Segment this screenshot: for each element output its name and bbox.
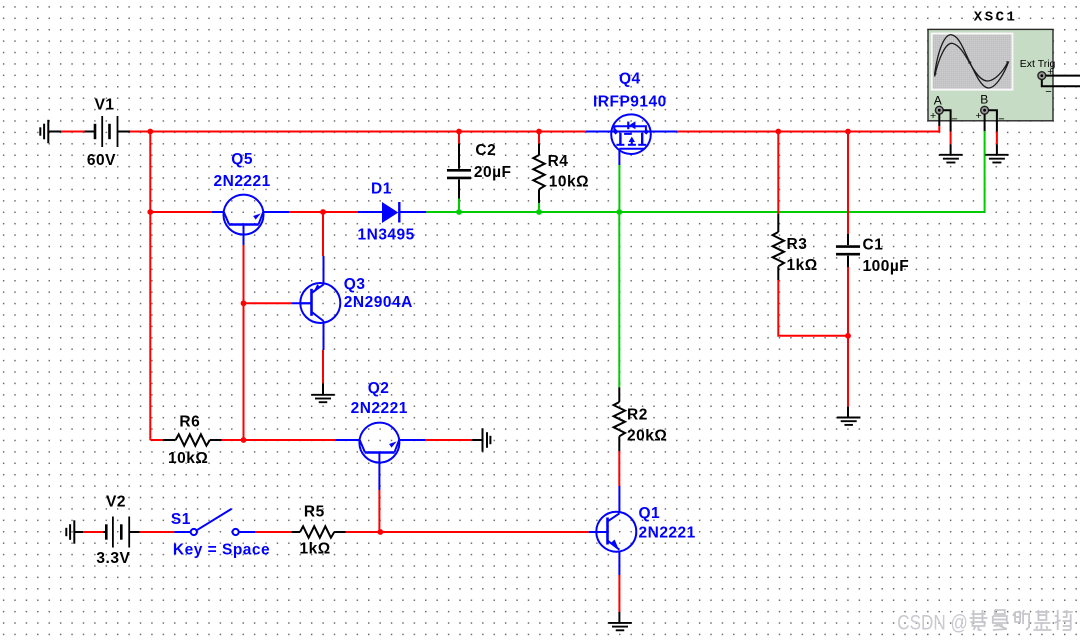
wire (R3 lead) bbox=[777, 214, 779, 232]
transistor Q1 bbox=[596, 512, 637, 552]
wire (S1 lead) bbox=[174, 531, 190, 533]
wire (Q3 emitter lead) bbox=[323, 256, 325, 285]
wire (B+ pin) bbox=[984, 114, 986, 131]
wire bbox=[458, 199, 460, 213]
wire (V1 lead) bbox=[118, 131, 131, 133]
svg-text:C2: C2 bbox=[475, 142, 496, 159]
svg-text:20µF: 20µF bbox=[474, 164, 512, 181]
svg-text:B: B bbox=[980, 93, 988, 107]
wire (ground stub) bbox=[322, 383, 324, 394]
junction bbox=[320, 209, 326, 215]
wire (ground stub) bbox=[472, 439, 483, 441]
svg-text:R4: R4 bbox=[548, 153, 569, 170]
wire bbox=[61, 131, 85, 133]
wire (Q1 base lead) bbox=[589, 531, 608, 533]
wire (Q3 base lead) bbox=[291, 302, 311, 304]
wire (B+ to output net) bbox=[984, 131, 986, 212]
wire (Q3 collector lead) bbox=[323, 321, 325, 350]
resistor R2 bbox=[614, 402, 625, 436]
wire (to R6) bbox=[150, 439, 163, 441]
wire (R5 to Q1 base) bbox=[346, 531, 589, 533]
switch S1 bbox=[191, 509, 239, 535]
svg-text:+: + bbox=[930, 110, 936, 122]
ground (Q3 collector) bbox=[311, 395, 335, 402]
svg-text:V1: V1 bbox=[95, 97, 115, 114]
diode D1 bbox=[382, 202, 398, 223]
wire (Q4 drain to output) bbox=[618, 165, 620, 212]
svg-text:10kΩ: 10kΩ bbox=[168, 450, 208, 467]
junction bbox=[241, 437, 247, 443]
junction bbox=[536, 209, 542, 215]
svg-text:Key = Space: Key = Space bbox=[173, 541, 270, 558]
wire (R2 lead) bbox=[618, 436, 620, 451]
svg-text:V2: V2 bbox=[106, 493, 126, 510]
svg-text:S1: S1 bbox=[171, 511, 191, 528]
wire (C1 lead) bbox=[847, 234, 849, 245]
svg-text:Q1: Q1 bbox=[639, 505, 661, 522]
wire (V1 lead) bbox=[85, 131, 96, 133]
svg-text:2N2221: 2N2221 bbox=[639, 525, 696, 542]
wire (to Q3 base) bbox=[244, 302, 292, 304]
wire (Q2 base lead) bbox=[378, 463, 380, 490]
svg-text:2N2221: 2N2221 bbox=[214, 173, 271, 190]
scope trace arrow marks bbox=[968, 61, 972, 64]
wire (R6 lead) bbox=[210, 439, 222, 441]
wire (left branch vertical) bbox=[149, 132, 151, 441]
svg-text:Q4: Q4 bbox=[619, 71, 641, 88]
wire (Q2 base to S1 net) bbox=[378, 490, 380, 532]
transistor Q4 (P-MOSFET IRFP9140) bbox=[611, 114, 651, 165]
wire (D1 anode lead) bbox=[358, 211, 382, 213]
wire (Q2 to ground) bbox=[425, 439, 472, 441]
wire (V2 ground lead) bbox=[74, 531, 83, 533]
wire (V2 lead) bbox=[103, 531, 106, 533]
junction bbox=[456, 209, 462, 215]
wire (R4 lead) bbox=[538, 144, 540, 155]
junction bbox=[241, 300, 247, 306]
wire (A+ pin) bbox=[938, 114, 940, 126]
wire (C2 lead) bbox=[458, 179, 460, 198]
wire (Q2 emitter lead) bbox=[399, 439, 425, 441]
svg-text:Q5: Q5 bbox=[231, 151, 253, 168]
svg-text:R5: R5 bbox=[304, 503, 325, 520]
wire (60V rail right) bbox=[677, 131, 939, 133]
junction bbox=[536, 129, 542, 135]
junction bbox=[845, 129, 851, 135]
svg-text:D1: D1 bbox=[371, 181, 392, 198]
wire (Q5 emitter lead) bbox=[263, 211, 289, 213]
svg-text:R6: R6 bbox=[179, 413, 200, 430]
resistor R5 bbox=[300, 526, 334, 537]
wire (Q5 base net) bbox=[243, 245, 245, 440]
svg-text:−: − bbox=[1045, 86, 1051, 98]
wire (A− stub) bbox=[950, 144, 952, 155]
ground (scope B−) bbox=[985, 155, 1008, 163]
svg-text:1N3495: 1N3495 bbox=[358, 226, 415, 243]
wire (Q5 base lead) bbox=[243, 235, 245, 245]
wire (A+ to rail) bbox=[938, 126, 940, 133]
resistor R3 bbox=[773, 232, 784, 266]
wire (A- pin) bbox=[943, 110, 950, 131]
battery V1 bbox=[95, 116, 118, 147]
wire (output net horizontal) bbox=[426, 211, 984, 213]
wire (ground stub) bbox=[618, 612, 620, 623]
svg-text:A: A bbox=[934, 94, 942, 108]
wire (ext trig −) bbox=[1042, 80, 1080, 87]
watermark glyphs bbox=[970, 610, 988, 630]
wire (R6 lead) bbox=[163, 439, 176, 441]
svg-text:IRFP9140: IRFP9140 bbox=[593, 94, 667, 111]
transistor Q5 bbox=[224, 195, 264, 235]
wire (ext trig +) bbox=[1046, 75, 1080, 77]
svg-text:R3: R3 bbox=[787, 236, 808, 253]
capacitor C2 bbox=[447, 170, 471, 178]
svg-text:CSDN @: CSDN @ bbox=[897, 611, 968, 635]
resistor R6 bbox=[176, 434, 210, 445]
svg-text:20kΩ: 20kΩ bbox=[627, 428, 667, 445]
svg-text:−: − bbox=[951, 113, 957, 125]
junction bbox=[147, 209, 153, 215]
svg-text:C1: C1 bbox=[863, 237, 884, 254]
wire (rail to R3) bbox=[777, 132, 779, 214]
oscilloscope XSC1 bbox=[928, 29, 1053, 120]
wire (R3 bottom to C1) bbox=[778, 280, 848, 336]
wire (V1 ground lead) bbox=[48, 131, 61, 133]
svg-text:XSC1: XSC1 bbox=[974, 10, 1018, 26]
wire (R2 lead) bbox=[618, 387, 620, 402]
svg-text:3.3V: 3.3V bbox=[96, 550, 130, 567]
wire (B− red) bbox=[996, 132, 998, 145]
wire bbox=[538, 203, 540, 212]
transistor Q3 (PNP) bbox=[300, 283, 341, 323]
wire bbox=[618, 575, 620, 612]
wire bbox=[618, 451, 620, 486]
junction bbox=[775, 129, 781, 135]
wire (ground stub) bbox=[847, 407, 849, 418]
svg-text:10kΩ: 10kΩ bbox=[549, 174, 589, 191]
wire (R5 lead) bbox=[291, 531, 300, 533]
ground (V1 negative) bbox=[40, 120, 48, 143]
svg-text:R2: R2 bbox=[627, 407, 648, 424]
wire (S1 to R5) bbox=[255, 531, 291, 533]
svg-text:−: − bbox=[998, 113, 1004, 125]
wire (C2 lead) bbox=[458, 144, 460, 169]
wire (to Q5) bbox=[150, 211, 211, 213]
wire (rail to C1) bbox=[847, 132, 849, 234]
wire (R6 to Q2 base) bbox=[222, 439, 336, 441]
wire (S1 lead) bbox=[239, 531, 255, 533]
wire (output to R2) bbox=[618, 212, 620, 387]
wire (Q5 collector lead) bbox=[212, 211, 224, 213]
ground (Q1 emitter) bbox=[608, 623, 632, 630]
svg-text:1kΩ: 1kΩ bbox=[300, 541, 331, 558]
junction bbox=[616, 209, 622, 215]
terminal B bbox=[981, 106, 989, 114]
junction bbox=[147, 129, 153, 135]
capacitor C1 bbox=[836, 247, 860, 255]
ground (C1) bbox=[837, 418, 861, 425]
wire (D1 cathode lead) bbox=[400, 211, 426, 213]
resistor R4 bbox=[533, 155, 544, 189]
svg-text:+: + bbox=[976, 110, 982, 122]
wire (B− stub) bbox=[996, 144, 998, 155]
scope waveform traces bbox=[935, 35, 1009, 88]
wire (R3 lead) bbox=[777, 266, 779, 280]
ground (V2 negative) bbox=[66, 520, 74, 543]
terminal Ext Trig bbox=[1038, 72, 1046, 80]
svg-text:100µF: 100µF bbox=[863, 258, 910, 275]
junction bbox=[456, 129, 462, 135]
wire (B- pin) bbox=[989, 110, 997, 131]
wire (V2 lead) bbox=[129, 531, 140, 533]
wire (C1 lead) bbox=[847, 256, 849, 267]
wire (Q2 collector lead) bbox=[335, 439, 360, 441]
wire (Q1 emitter lead) bbox=[618, 552, 620, 575]
wire (C1 to ground) bbox=[847, 267, 849, 407]
junction bbox=[845, 333, 851, 339]
wire (R4 lead) bbox=[538, 189, 540, 203]
wire (60V rail left) bbox=[130, 131, 586, 133]
wire (to R4) bbox=[538, 132, 540, 144]
wire (Q5 to D1) bbox=[289, 211, 358, 213]
svg-text:60V: 60V bbox=[87, 152, 116, 169]
wire (V2 to S1) bbox=[140, 531, 175, 533]
ground (scope A−) bbox=[939, 155, 962, 163]
wire (Q3 emitter net) bbox=[322, 212, 324, 256]
wire (to C2) bbox=[458, 132, 460, 144]
svg-text:2N2221: 2N2221 bbox=[351, 400, 408, 417]
junction bbox=[377, 529, 383, 535]
svg-text:1kΩ: 1kΩ bbox=[787, 257, 818, 274]
svg-text:Q3: Q3 bbox=[344, 276, 366, 293]
svg-text:2N2904A: 2N2904A bbox=[344, 294, 413, 311]
wire (A− red) bbox=[950, 132, 952, 145]
wire bbox=[322, 350, 324, 383]
ground (Q2 emitter) bbox=[483, 428, 491, 451]
svg-text:Q2: Q2 bbox=[368, 380, 390, 397]
transistor Q2 bbox=[359, 423, 399, 463]
wire (R5 lead) bbox=[334, 531, 345, 533]
wire bbox=[83, 531, 103, 533]
wire (Q4 through lead) bbox=[586, 131, 677, 133]
wire (Q1 collector lead) bbox=[618, 486, 620, 512]
terminal A bbox=[935, 106, 943, 114]
battery V2 bbox=[106, 517, 129, 548]
